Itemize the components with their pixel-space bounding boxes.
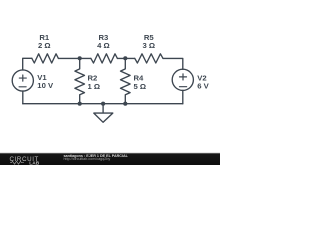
V1 plus <box>19 75 26 81</box>
svg-text:1 Ω: 1 Ω <box>88 82 101 91</box>
svg-text:4 Ω: 4 Ω <box>97 41 110 50</box>
ground <box>94 104 113 123</box>
wire bottom rail <box>23 103 183 105</box>
voltage source V2 <box>172 69 193 90</box>
node junction R4 bottom <box>123 102 127 106</box>
svg-text:http://circuitlab.com/cagq2by: http://circuitlab.com/cagq2by <box>64 157 111 161</box>
resistor R5 <box>135 54 163 63</box>
V2 plus <box>180 74 187 80</box>
wire top-left rail <box>23 58 32 70</box>
svg-text:5 Ω: 5 Ω <box>134 82 147 91</box>
wire top-right rail <box>163 58 183 69</box>
V1 minus <box>19 86 26 88</box>
resistor R3 <box>91 54 118 63</box>
node junction ground <box>101 102 105 106</box>
V2 minus <box>180 86 187 88</box>
svg-text:3 Ω: 3 Ω <box>143 41 156 50</box>
wire V2 bottom <box>182 90 184 103</box>
svg-text:6 V: 6 V <box>197 81 209 90</box>
node junction R2 bottom <box>78 102 82 106</box>
resistor R2 <box>75 58 85 103</box>
wire R1 to R3 <box>58 57 91 59</box>
svg-text:LAB: LAB <box>29 160 39 165</box>
svg-text:R2: R2 <box>88 73 98 82</box>
node junction R2 top <box>78 56 82 60</box>
resistor R1 <box>32 54 59 63</box>
wire R3 to R5 <box>117 57 134 59</box>
svg-text:R4: R4 <box>134 73 145 82</box>
wire V1 bottom <box>22 91 24 104</box>
svg-text:2 Ω: 2 Ω <box>38 41 51 50</box>
voltage source V1 <box>12 70 33 91</box>
node junction R4 top <box>123 56 127 60</box>
resistor R4 <box>121 58 131 103</box>
svg-text:10 V: 10 V <box>37 81 54 90</box>
circuitlab logo zigzag <box>10 161 24 164</box>
